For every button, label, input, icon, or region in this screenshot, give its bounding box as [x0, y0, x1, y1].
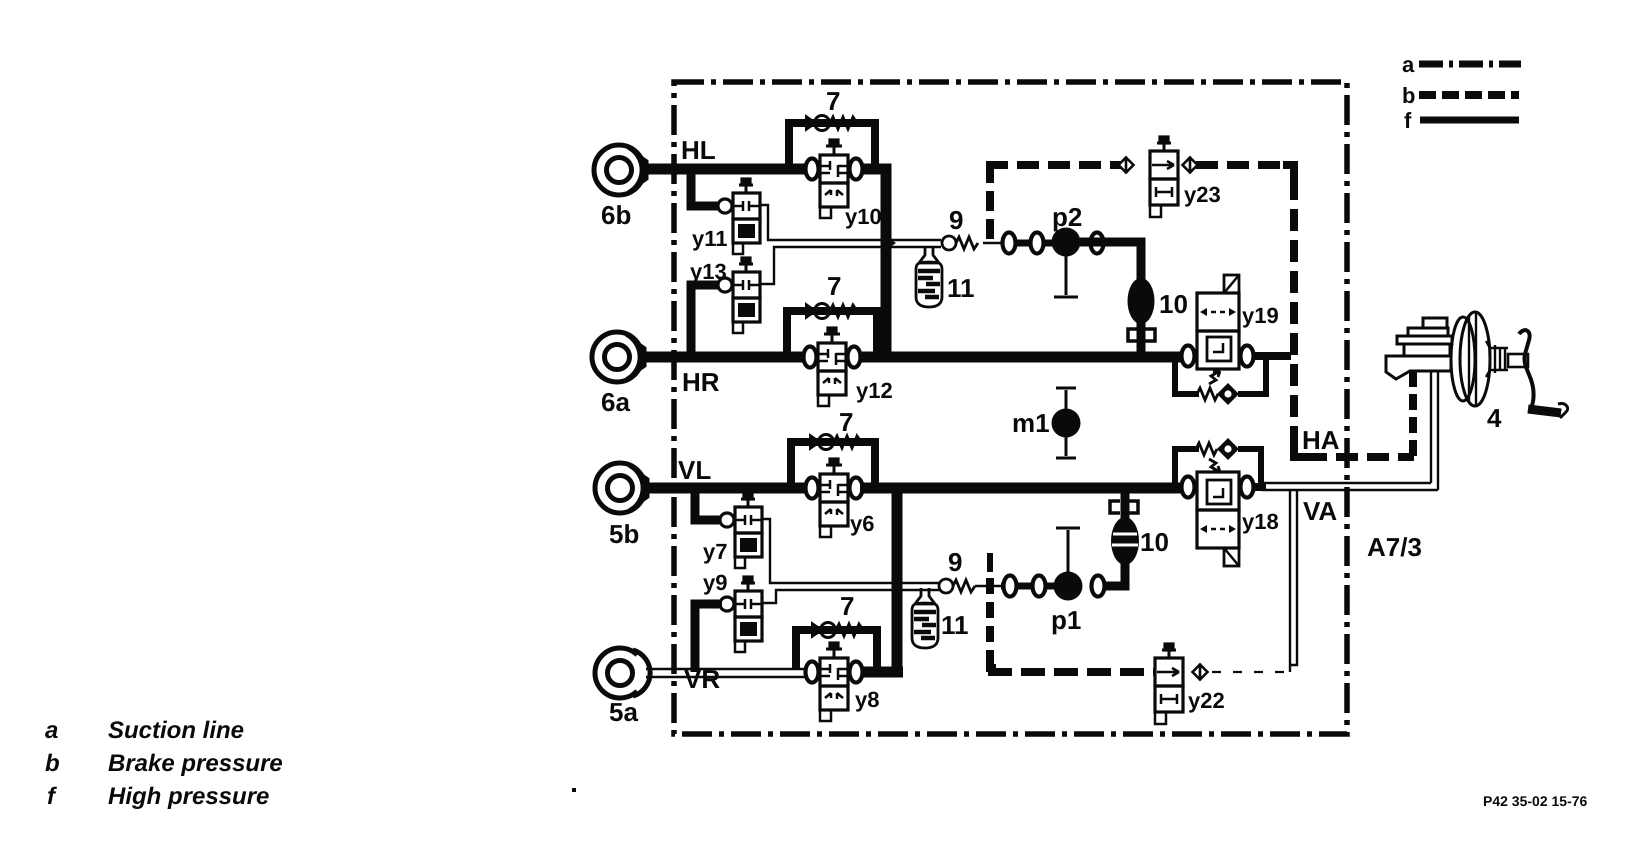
- svg-text:f: f: [1404, 108, 1412, 133]
- svg-text:y10: y10: [845, 204, 882, 229]
- svg-text:6a: 6a: [601, 387, 630, 417]
- svg-text:10: 10: [1159, 289, 1188, 319]
- svg-text:y12: y12: [856, 378, 893, 403]
- svg-text:HL: HL: [681, 135, 716, 165]
- check+restrictor 7 (above y6): [810, 435, 861, 450]
- wire bypass7 loop over y8: [796, 630, 877, 669]
- svg-text:y11: y11: [692, 226, 728, 251]
- wire HL main (thick): [643, 164, 806, 175]
- port: [1092, 576, 1105, 597]
- wheel 6a: [592, 332, 645, 382]
- svg-text:Suction line: Suction line: [108, 717, 244, 744]
- speck: [572, 788, 576, 792]
- svg-text:High pressure: High pressure: [108, 783, 269, 810]
- pump p2: [1052, 202, 1083, 297]
- restrictor 9 (bottom): [939, 579, 975, 593]
- valve y8: [806, 643, 863, 721]
- damper symbol: [1128, 329, 1155, 341]
- svg-text:p1: p1: [1051, 605, 1081, 635]
- wire y22 dashed line: [988, 668, 1154, 676]
- port: [1004, 576, 1017, 597]
- wire bypass7 loop over y10: [789, 123, 875, 166]
- port: [1003, 233, 1016, 254]
- legend line a (suction, dash-dot): [1402, 52, 1521, 77]
- svg-text:HA: HA: [1302, 425, 1340, 455]
- wire master cylinder VA pipe: [1431, 371, 1438, 490]
- valve y10: [806, 140, 863, 218]
- valve y11: [718, 179, 760, 254]
- wire bypass7 loop over y6: [791, 442, 875, 485]
- accumulator 10 (bottom): [1111, 517, 1139, 565]
- svg-text:VL: VL: [678, 455, 711, 485]
- port: [1091, 233, 1104, 254]
- wire VL main: [644, 483, 806, 494]
- valve y6: [806, 459, 863, 537]
- svg-text:7: 7: [827, 271, 841, 301]
- svg-text:p2: p2: [1052, 202, 1082, 232]
- svg-text:7: 7: [826, 86, 840, 116]
- wire y18 bypass above: [1175, 449, 1261, 483]
- svg-text:A7/3: A7/3: [1367, 532, 1422, 562]
- valve y19: [1182, 275, 1254, 369]
- wire p1 out to accumulator 10: [1105, 560, 1125, 586]
- accumulator 10 (top): [1128, 278, 1155, 324]
- restrictor 9 (top): [942, 236, 978, 250]
- svg-text:b: b: [1402, 83, 1415, 108]
- wire riser to y22 dashed: [987, 553, 993, 572]
- svg-text:a: a: [45, 717, 58, 744]
- svg-text:VA: VA: [1303, 496, 1337, 526]
- wire HR main: [641, 352, 804, 363]
- svg-text:7: 7: [839, 407, 853, 437]
- wire VL to y7 branch: [695, 488, 721, 520]
- wire suction junction to p1: [975, 585, 1001, 588]
- svg-text:b: b: [45, 750, 60, 777]
- wheel 6b: [594, 145, 647, 195]
- port: [1033, 576, 1046, 597]
- wire VA double line: [1262, 483, 1438, 490]
- wire accumulator to HR line: [1137, 322, 1146, 357]
- wire suction junction to p2: [983, 242, 1001, 245]
- wire y8 out: [862, 667, 903, 678]
- svg-text:y13: y13: [690, 259, 727, 284]
- wire suction thin from y7/y9: [762, 519, 940, 603]
- valve y23: [1150, 137, 1178, 217]
- wire y12 out to y19: [860, 352, 1182, 363]
- check+restrictor 7 (above y12): [806, 304, 857, 319]
- wire p2 out to accumulator 10: [1080, 242, 1141, 280]
- wire y10 out down to HR junction: [863, 169, 886, 357]
- svg-text:4: 4: [1487, 403, 1502, 433]
- svg-text:6b: 6b: [601, 200, 631, 230]
- motor m1: [1012, 388, 1081, 458]
- wire accumulator to VL line: [1121, 488, 1130, 518]
- port: [1031, 233, 1044, 254]
- valve y7: [720, 493, 762, 568]
- wire y19 bypass below: [1175, 360, 1266, 394]
- svg-text:y6: y6: [850, 511, 874, 536]
- wire y19 out to HA riser: [1253, 352, 1291, 360]
- valve y18: [1182, 472, 1254, 566]
- wire suction dashed top run: [986, 161, 1122, 169]
- svg-text:9: 9: [948, 547, 962, 577]
- wire y9 branch to VR: [695, 604, 722, 672]
- svg-text:5b: 5b: [609, 519, 639, 549]
- valve y12: [804, 328, 861, 406]
- wire VA down to y22 double line: [1290, 490, 1297, 672]
- wire master cylinder HA pipe: [1409, 371, 1417, 457]
- legend line b (brake pressure, dashed): [1402, 83, 1519, 108]
- svg-text:y9: y9: [703, 570, 727, 595]
- svg-text:y22: y22: [1188, 688, 1225, 713]
- svg-text:m1: m1: [1012, 408, 1050, 438]
- svg-text:11: 11: [947, 273, 975, 303]
- enclosure border A7/3 dash-dot box: [674, 82, 1347, 734]
- wire HL to y11 branch: [691, 169, 719, 206]
- valve y13: [718, 258, 760, 333]
- svg-text:y18: y18: [1242, 509, 1279, 534]
- wire y18 out to VA: [1253, 483, 1266, 491]
- wire VR thin double: [646, 669, 806, 677]
- legend line f (high pressure, solid): [1404, 108, 1519, 133]
- junction crossing (top): [886, 236, 896, 250]
- svg-text:y8: y8: [855, 687, 879, 712]
- svg-text:7: 7: [840, 591, 854, 621]
- wire VL/VR junction vertical: [892, 488, 903, 672]
- wire suction thin from y11/y13: [760, 205, 941, 284]
- wheel 5a (open): [595, 648, 650, 698]
- svg-text:9: 9: [949, 205, 963, 235]
- wire brake pressure dashed down right side: [1283, 165, 1294, 178]
- svg-text:P42 35-02 15-76: P42 35-02 15-76: [1483, 793, 1588, 809]
- svg-text:a: a: [1402, 52, 1415, 77]
- wheel 5b: [595, 463, 648, 513]
- svg-text:Brake pressure: Brake pressure: [108, 750, 283, 777]
- svg-text:HR: HR: [682, 367, 720, 397]
- valve y22: [1155, 644, 1183, 724]
- junction crossing (bottom): [892, 579, 902, 593]
- master cylinder and booster 4: [1386, 312, 1568, 418]
- wire bypass7 loop over y12: [787, 311, 877, 354]
- damper symbol: [1110, 501, 1138, 513]
- pump p1: [1051, 528, 1083, 635]
- svg-text:5a: 5a: [609, 697, 638, 727]
- wire y6 out to y18: [860, 483, 1182, 494]
- check+restrictor 7 (above y8): [812, 623, 863, 638]
- svg-text:11: 11: [941, 610, 969, 640]
- suction dashed from junction up to y23 line: [986, 170, 994, 239]
- valve y9: [720, 577, 762, 652]
- accumulator 11 (bottom): [912, 588, 938, 648]
- svg-text:y23: y23: [1184, 182, 1221, 207]
- check+restrictor 7 (top): [806, 116, 857, 131]
- svg-text:y7: y7: [703, 539, 727, 564]
- wire HA dashed: [1294, 446, 1307, 457]
- svg-text:10: 10: [1140, 527, 1169, 557]
- svg-text:y19: y19: [1242, 303, 1279, 328]
- wire HR to y13 branch: [691, 285, 719, 357]
- accumulator 11 (top): [916, 247, 942, 307]
